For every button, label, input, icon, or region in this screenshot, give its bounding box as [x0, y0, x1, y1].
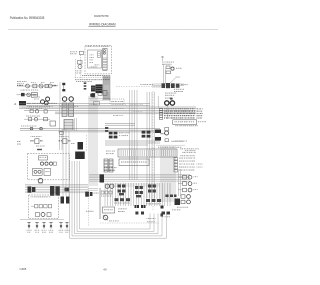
wire below icemaker — [20, 219, 64, 221]
dispenser dashed feed rows — [75, 75, 111, 80]
wire ring drop — [158, 96, 168, 119]
harness connector P2 (hatched) — [69, 103, 74, 117]
wire pair down — [100, 188, 101, 219]
dispenser ribbon hatch band — [103, 76, 110, 100]
bus labels text — [22, 105, 143, 116]
row1 wire — [17, 85, 57, 87]
wire diagonal LED — [170, 78, 176, 83]
dispenser inner lower marks — [90, 65, 100, 68]
main control board header strip — [118, 149, 177, 157]
right lower dark comp — [175, 199, 181, 206]
center-low comp cluster1 — [118, 185, 126, 196]
row1 terminal marks — [17, 84, 23, 87]
evap fan caption text — [175, 124, 198, 127]
center-low caption text — [104, 167, 117, 171]
LED label2 text — [176, 76, 181, 79]
terminal ring C — [46, 97, 50, 101]
svg-text:A: A — [14, 102, 16, 106]
left vertical wires — [60, 104, 63, 150]
right top text rows — [180, 148, 199, 156]
svg-text:40: 40 — [103, 267, 107, 271]
dark comp center — [100, 175, 105, 183]
wire ribbon right edge — [109, 76, 111, 101]
dashed stub divider — [86, 135, 88, 152]
center-low text block — [106, 151, 115, 154]
bottom box small — [103, 207, 115, 213]
icemaker dashed enclosure — [29, 195, 59, 219]
compressor label text — [36, 146, 45, 151]
center motor ring — [105, 184, 114, 188]
defrost heater H1 — [31, 93, 37, 98]
right component rows upper — [174, 158, 203, 172]
harness connector J4 (dark) — [91, 86, 95, 92]
band top connector (dark) — [90, 94, 94, 97]
lower-left bus wires — [25, 184, 98, 193]
perforation wavy cut line — [8, 28, 219, 31]
right aux box2 — [165, 139, 168, 142]
relay block RL1 (dark) — [78, 142, 84, 150]
terminal ring A — [41, 100, 45, 104]
compressor right vertical wires — [63, 129, 69, 196]
low right text marks — [109, 218, 156, 222]
mid connector cluster 2 — [142, 131, 160, 138]
compressor motor windings box — [33, 169, 43, 176]
left small connector — [60, 131, 64, 134]
run capacitor cluster — [30, 139, 43, 144]
right aux label text — [156, 141, 185, 145]
row1 end marks — [53, 84, 58, 87]
top connector cluster boxes — [98, 91, 107, 96]
terminal ring B — [44, 101, 48, 105]
compressor inner circles — [40, 162, 56, 165]
vertical harness band D (right) — [161, 146, 175, 202]
dispenser title text — [87, 46, 110, 47]
center-low mesh horizontals — [105, 184, 160, 186]
control box K1 (dark) — [19, 101, 57, 106]
dispenser switch column U3 — [103, 49, 107, 71]
terminal strip rows — [160, 108, 203, 119]
top-right label NC text — [181, 83, 188, 86]
dispenser harness connector J3 (dark) — [96, 84, 103, 93]
mid connector cluster 1 — [109, 132, 130, 139]
switch S3 with ring — [45, 84, 52, 88]
fan feed vertical pair — [179, 169, 181, 196]
center-low comp row5 — [146, 199, 161, 204]
lamp L3 — [27, 93, 31, 97]
row2 label text — [21, 89, 38, 92]
power plug ring 1 — [165, 101, 169, 105]
tertiary bus wires — [105, 141, 160, 145]
wire vertical row1 right — [59, 82, 61, 104]
hatched connector center — [104, 159, 113, 172]
lower-left connector block3 — [65, 188, 70, 192]
wire dashed mid horizontal — [116, 84, 160, 87]
footer left page code text — [20, 267, 27, 271]
main vertical harness band (center) — [89, 96, 97, 186]
wire dashed drop right — [80, 55, 82, 78]
dispenser inner board text — [90, 55, 94, 63]
bottom text small — [118, 208, 127, 212]
right aux box — [165, 128, 169, 131]
bottom right marks — [162, 212, 171, 218]
section dashed divider — [152, 91, 154, 210]
door switch ring S4 — [171, 67, 174, 70]
wire ribbon left edge — [102, 76, 104, 101]
bottom cluster dark — [85, 192, 98, 197]
footer page number text — [103, 267, 107, 271]
nested return wires (bottom loops) — [70, 161, 167, 238]
header WIRING DIAGRAM title — [89, 22, 116, 26]
icemaker title text — [31, 195, 51, 198]
start relay cluster — [59, 139, 75, 144]
dispenser assembly dashed enclosure — [85, 45, 112, 74]
lamp L2 — [39, 84, 43, 88]
aux row2 components — [24, 116, 50, 121]
right small cluster — [165, 98, 173, 100]
left edge connector marks — [105, 127, 108, 132]
vertical harness band C — [147, 92, 155, 198]
LED module D2 — [166, 71, 171, 74]
right text caption — [175, 141, 196, 151]
svg-text:GB/8: GB/8 — [20, 267, 27, 271]
svg-text:Publication No. 5995543035: Publication No. 5995543035 — [10, 16, 45, 20]
dark oval pairs — [135, 205, 146, 208]
harness connector P1 (hatched) — [62, 103, 67, 117]
run capacitor label — [31, 135, 42, 138]
header publication number text — [10, 16, 45, 20]
right fan rows (box and motor circles) — [178, 175, 198, 192]
dispenser harness label text — [76, 80, 92, 83]
aux row1 components — [26, 108, 47, 113]
freezer door switch S1 — [80, 51, 84, 54]
vertical harness band B — [130, 90, 138, 180]
compressor protector box — [44, 169, 51, 176]
secondary bus wires — [20, 124, 160, 132]
dashed label box — [110, 99, 124, 104]
center-low vertical wires — [105, 183, 170, 206]
center-low comp row4 — [114, 198, 130, 203]
main horizontal bus wires — [19, 104, 196, 114]
svg-text:WIRING DIAGRAM: WIRING DIAGRAM — [89, 22, 116, 26]
dispenser inner board outline — [88, 50, 102, 68]
wire vertical P3 drops — [75, 118, 77, 131]
left marks column — [84, 82, 87, 89]
top-right bus wires — [152, 84, 184, 87]
wire dashed drop left — [75, 59, 77, 78]
row2 connector dark — [21, 93, 25, 96]
wire dashed horizontal low — [100, 222, 160, 224]
row2 wire — [17, 94, 38, 96]
door switch label text — [176, 67, 182, 70]
compressor inner box1 — [39, 156, 48, 160]
center-low comp cluster2 — [135, 186, 143, 197]
row3 label text — [34, 97, 40, 100]
compressor dashed enclosure — [28, 154, 70, 180]
right edge small marks — [161, 206, 164, 217]
row1 labels text — [17, 81, 54, 84]
lower-left connector block1 — [28, 187, 36, 193]
dark square pair — [135, 212, 144, 215]
plug ring P1 top — [62, 97, 66, 101]
left tiny marks — [17, 141, 21, 145]
icemaker connector bars — [61, 197, 70, 204]
left dashed wire row — [20, 126, 45, 130]
bottom small boxes trio — [101, 191, 112, 196]
header model number text — [94, 14, 109, 18]
compressor shell ground — [38, 178, 43, 183]
aux small box — [50, 121, 56, 126]
main board strip label — [158, 146, 182, 149]
right connector row dark — [86, 195, 177, 212]
lower-left connector block2 — [50, 186, 60, 196]
center-low comp cluster3 — [148, 185, 156, 193]
icemaker component row — [31, 205, 52, 208]
node A marker — [14, 102, 16, 106]
start device label — [59, 135, 68, 138]
wire vertical LED feed — [164, 64, 166, 84]
harness connector P3 (hatched dark) — [64, 120, 73, 131]
harness connector J5 (dark) — [92, 93, 96, 97]
plug ring P2 top — [69, 97, 73, 101]
power plug ring 2 — [170, 101, 174, 105]
defrost thermostat — [103, 215, 108, 221]
right aux marks — [161, 133, 165, 134]
band small box — [94, 102, 100, 105]
main control board label box — [119, 159, 149, 166]
band ladder stubs — [89, 98, 111, 104]
svg-text:FFHB2750TS8: FFHB2750TS8 — [94, 14, 109, 18]
right fan motor M1 — [165, 131, 169, 135]
divider connector bars — [155, 130, 161, 141]
switch S2 — [33, 84, 37, 88]
top-right connector cluster — [162, 83, 180, 88]
evap fan boxed row — [173, 120, 206, 125]
connector bracket J2 — [62, 83, 65, 92]
wire vertical right top — [161, 56, 164, 61]
wire dashed vertical mid — [87, 186, 89, 226]
top-right lower rows — [165, 89, 184, 96]
ground stud row — [27, 223, 70, 233]
center bus wires — [89, 174, 190, 181]
lamp L1 — [26, 84, 30, 88]
freezer door switch label text — [70, 51, 77, 54]
LED module D1 — [166, 66, 170, 69]
auger motor stack M2 — [76, 61, 83, 74]
right lower text — [172, 207, 188, 210]
relay block RL2 (dark) — [75, 152, 85, 160]
dispenser inner sub box — [97, 52, 100, 57]
right lower rows — [181, 195, 190, 204]
icemaker lower row — [36, 213, 52, 217]
LED light label text — [162, 62, 174, 65]
